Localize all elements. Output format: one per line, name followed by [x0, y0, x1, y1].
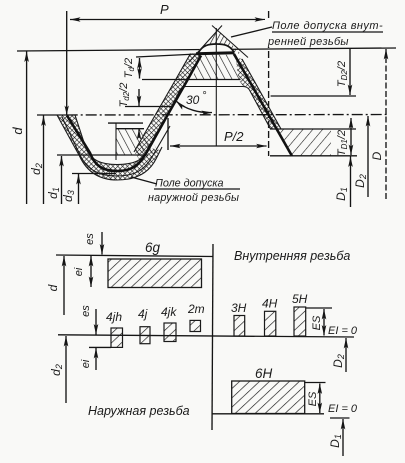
dimension D2 bottom: [345, 338, 347, 372]
dimension 30 degrees angle: [176, 101, 212, 113]
svg-text:ренней резьбы: ренней резьбы: [267, 36, 349, 48]
dimension D2 right: [367, 116, 369, 197]
node 6g tolerance field: [108, 259, 202, 288]
wire P left extension line: [66, 11, 68, 115]
dimension Td2/2: [138, 89, 140, 106]
wire d min line: [142, 79, 241, 81]
node apex hatch between dome and sharp V: [194, 29, 242, 58]
svg-text:d: d: [46, 284, 60, 291]
svg-text:d2: d2: [29, 163, 44, 175]
wire d2 reference line: [37, 114, 67, 116]
svg-text:наружной резьбы: наружной резьбы: [148, 192, 239, 204]
svg-text:P/2: P/2: [224, 129, 244, 144]
svg-text:4H: 4H: [262, 297, 278, 311]
wire peak axis line: [215, 28, 217, 146]
svg-text:4jk: 4jk: [161, 305, 177, 319]
wire zero line d row: [56, 255, 213, 257]
svg-text:2m: 2m: [187, 302, 205, 316]
svg-text:°: °: [202, 90, 207, 102]
svg-text:30: 30: [186, 93, 200, 107]
node arrowhead at P extension over pitch line: [65, 106, 69, 116]
node leader internal thread tolerance: [263, 20, 277, 47]
wire P right extension dash-dot: [268, 11, 270, 156]
svg-text:4jh: 4jh: [106, 310, 122, 324]
dimension D right: [385, 49, 387, 199]
svg-text:3H: 3H: [231, 301, 247, 315]
node thread profile tolerance band (cross hatched ribbon): [57, 115, 160, 180]
svg-text:4j: 4j: [138, 307, 148, 321]
node 6H tolerance field: [232, 381, 305, 414]
wire theoretical sharp profile left: [189, 26, 222, 63]
svg-text:D: D: [370, 151, 384, 160]
node desc flank band (cross hatched): [236, 57, 282, 129]
wire outer boundary desc flank: [242, 59, 281, 129]
svg-text:EI = 0: EI = 0: [328, 325, 358, 337]
svg-text:D1: D1: [334, 187, 349, 201]
wire D2 max nut line: [271, 95, 356, 97]
wire d2 max line: [125, 106, 172, 108]
svg-text:TD2/2: TD2/2: [336, 61, 349, 87]
svg-text:TD1/2: TD1/2: [336, 130, 349, 156]
wire strip top line: [270, 128, 356, 130]
svg-text:d1: d1: [46, 187, 61, 199]
dimension D1 bottom: [342, 419, 344, 456]
wire top crest line d/D: [17, 48, 396, 51]
dimension TD2/2: [349, 49, 351, 95]
wire step mid line: [108, 122, 143, 124]
svg-text:es: es: [80, 305, 92, 317]
dimension d2: [43, 116, 45, 205]
wire zero line d2/D2 row: [58, 335, 354, 337]
svg-text:d3: d3: [61, 190, 76, 202]
wire D1 baseline segment: [330, 417, 350, 419]
svg-text:Td2/2: Td2/2: [118, 83, 131, 108]
dimension ES row3: [305, 382, 326, 384]
node bolt crest tolerance zone Td (hatched trapezoid): [193, 55, 240, 79]
dimension ES row2: [306, 307, 332, 309]
dimension TD1/2: [350, 118, 352, 130]
wire strip bottom line D1 level: [270, 155, 357, 157]
wire divider line: [212, 244, 213, 430]
svg-text:D1: D1: [328, 434, 343, 448]
dimension d row1: [63, 256, 65, 315]
dimension ei row1: [90, 256, 92, 287]
thick crest flat line: [196, 53, 235, 54]
white under dome: [196, 44, 234, 53]
svg-text:ei: ei: [73, 267, 85, 276]
dimension es arrow row1: [101, 232, 103, 255]
svg-text:ES: ES: [307, 391, 319, 406]
svg-text:6H: 6H: [255, 366, 273, 381]
svg-text:6g: 6g: [145, 240, 161, 255]
thick nominal desc flank: [234, 54, 292, 156]
svg-text:es: es: [84, 233, 96, 245]
wire d2 min line: [116, 128, 145, 130]
dimension d left: [26, 52, 28, 205]
svg-text:ei: ei: [80, 359, 92, 368]
wire d1 reference line: [57, 154, 148, 156]
node asc flank band (cross hatched): [134, 53, 203, 161]
dimension ei row2: [89, 346, 111, 348]
wire mid thin root arc: [62, 117, 170, 176]
wire dash-dot pitch line: [67, 114, 388, 117]
wire outer boundary (left flank, root, asc flank): [57, 115, 162, 180]
svg-text:Наружная резьба: Наружная резьба: [88, 404, 190, 418]
dimension Td/2: [139, 58, 141, 79]
svg-text:d: d: [10, 127, 25, 135]
wire inner boundary root arc: [75, 115, 165, 165]
dimension d3: [78, 174, 80, 204]
node internal thread root strip hatched: [277, 129, 331, 156]
svg-text:d2: d2: [49, 364, 64, 376]
dimension P: [70, 19, 265, 21]
wire nut crest line D with rounded corners: [172, 87, 271, 130]
node leader external thread tolerance: [131, 177, 157, 184]
wire crest dome (nut root): [199, 44, 234, 52]
dimension D1 right: [350, 157, 352, 208]
wire d3 reference line: [72, 173, 116, 175]
thick nominal bolt profile left+root+asc: [67, 56, 201, 172]
wire d max extension line: [136, 54, 197, 57]
svg-text:Поле допуска: Поле допуска: [155, 178, 224, 190]
wire zero line 6H row: [212, 413, 324, 415]
dimension d1: [61, 156, 63, 204]
dimension P/2: [167, 118, 169, 150]
svg-text:Td/2: Td/2: [123, 58, 136, 78]
svg-text:P: P: [160, 2, 169, 17]
dimension d2 row2: [65, 336, 67, 403]
svg-text:Поле допуска внут-: Поле допуска внут-: [272, 20, 383, 32]
svg-text:ES: ES: [311, 315, 323, 330]
svg-text:5H: 5H: [292, 292, 308, 306]
svg-text:D2: D2: [331, 354, 346, 368]
wire outer boundary asc flank: [134, 54, 191, 153]
dimension es arrow row2: [95, 309, 97, 335]
svg-text:EI = 0: EI = 0: [328, 403, 358, 415]
node step block hatched (bolt pitch diameter zone): [116, 129, 158, 155]
svg-text:D2: D2: [353, 174, 368, 188]
svg-text:Внутренняя резьба: Внутренняя резьба: [234, 249, 350, 263]
wire theoretical sharp profile right: [212, 26, 248, 58]
